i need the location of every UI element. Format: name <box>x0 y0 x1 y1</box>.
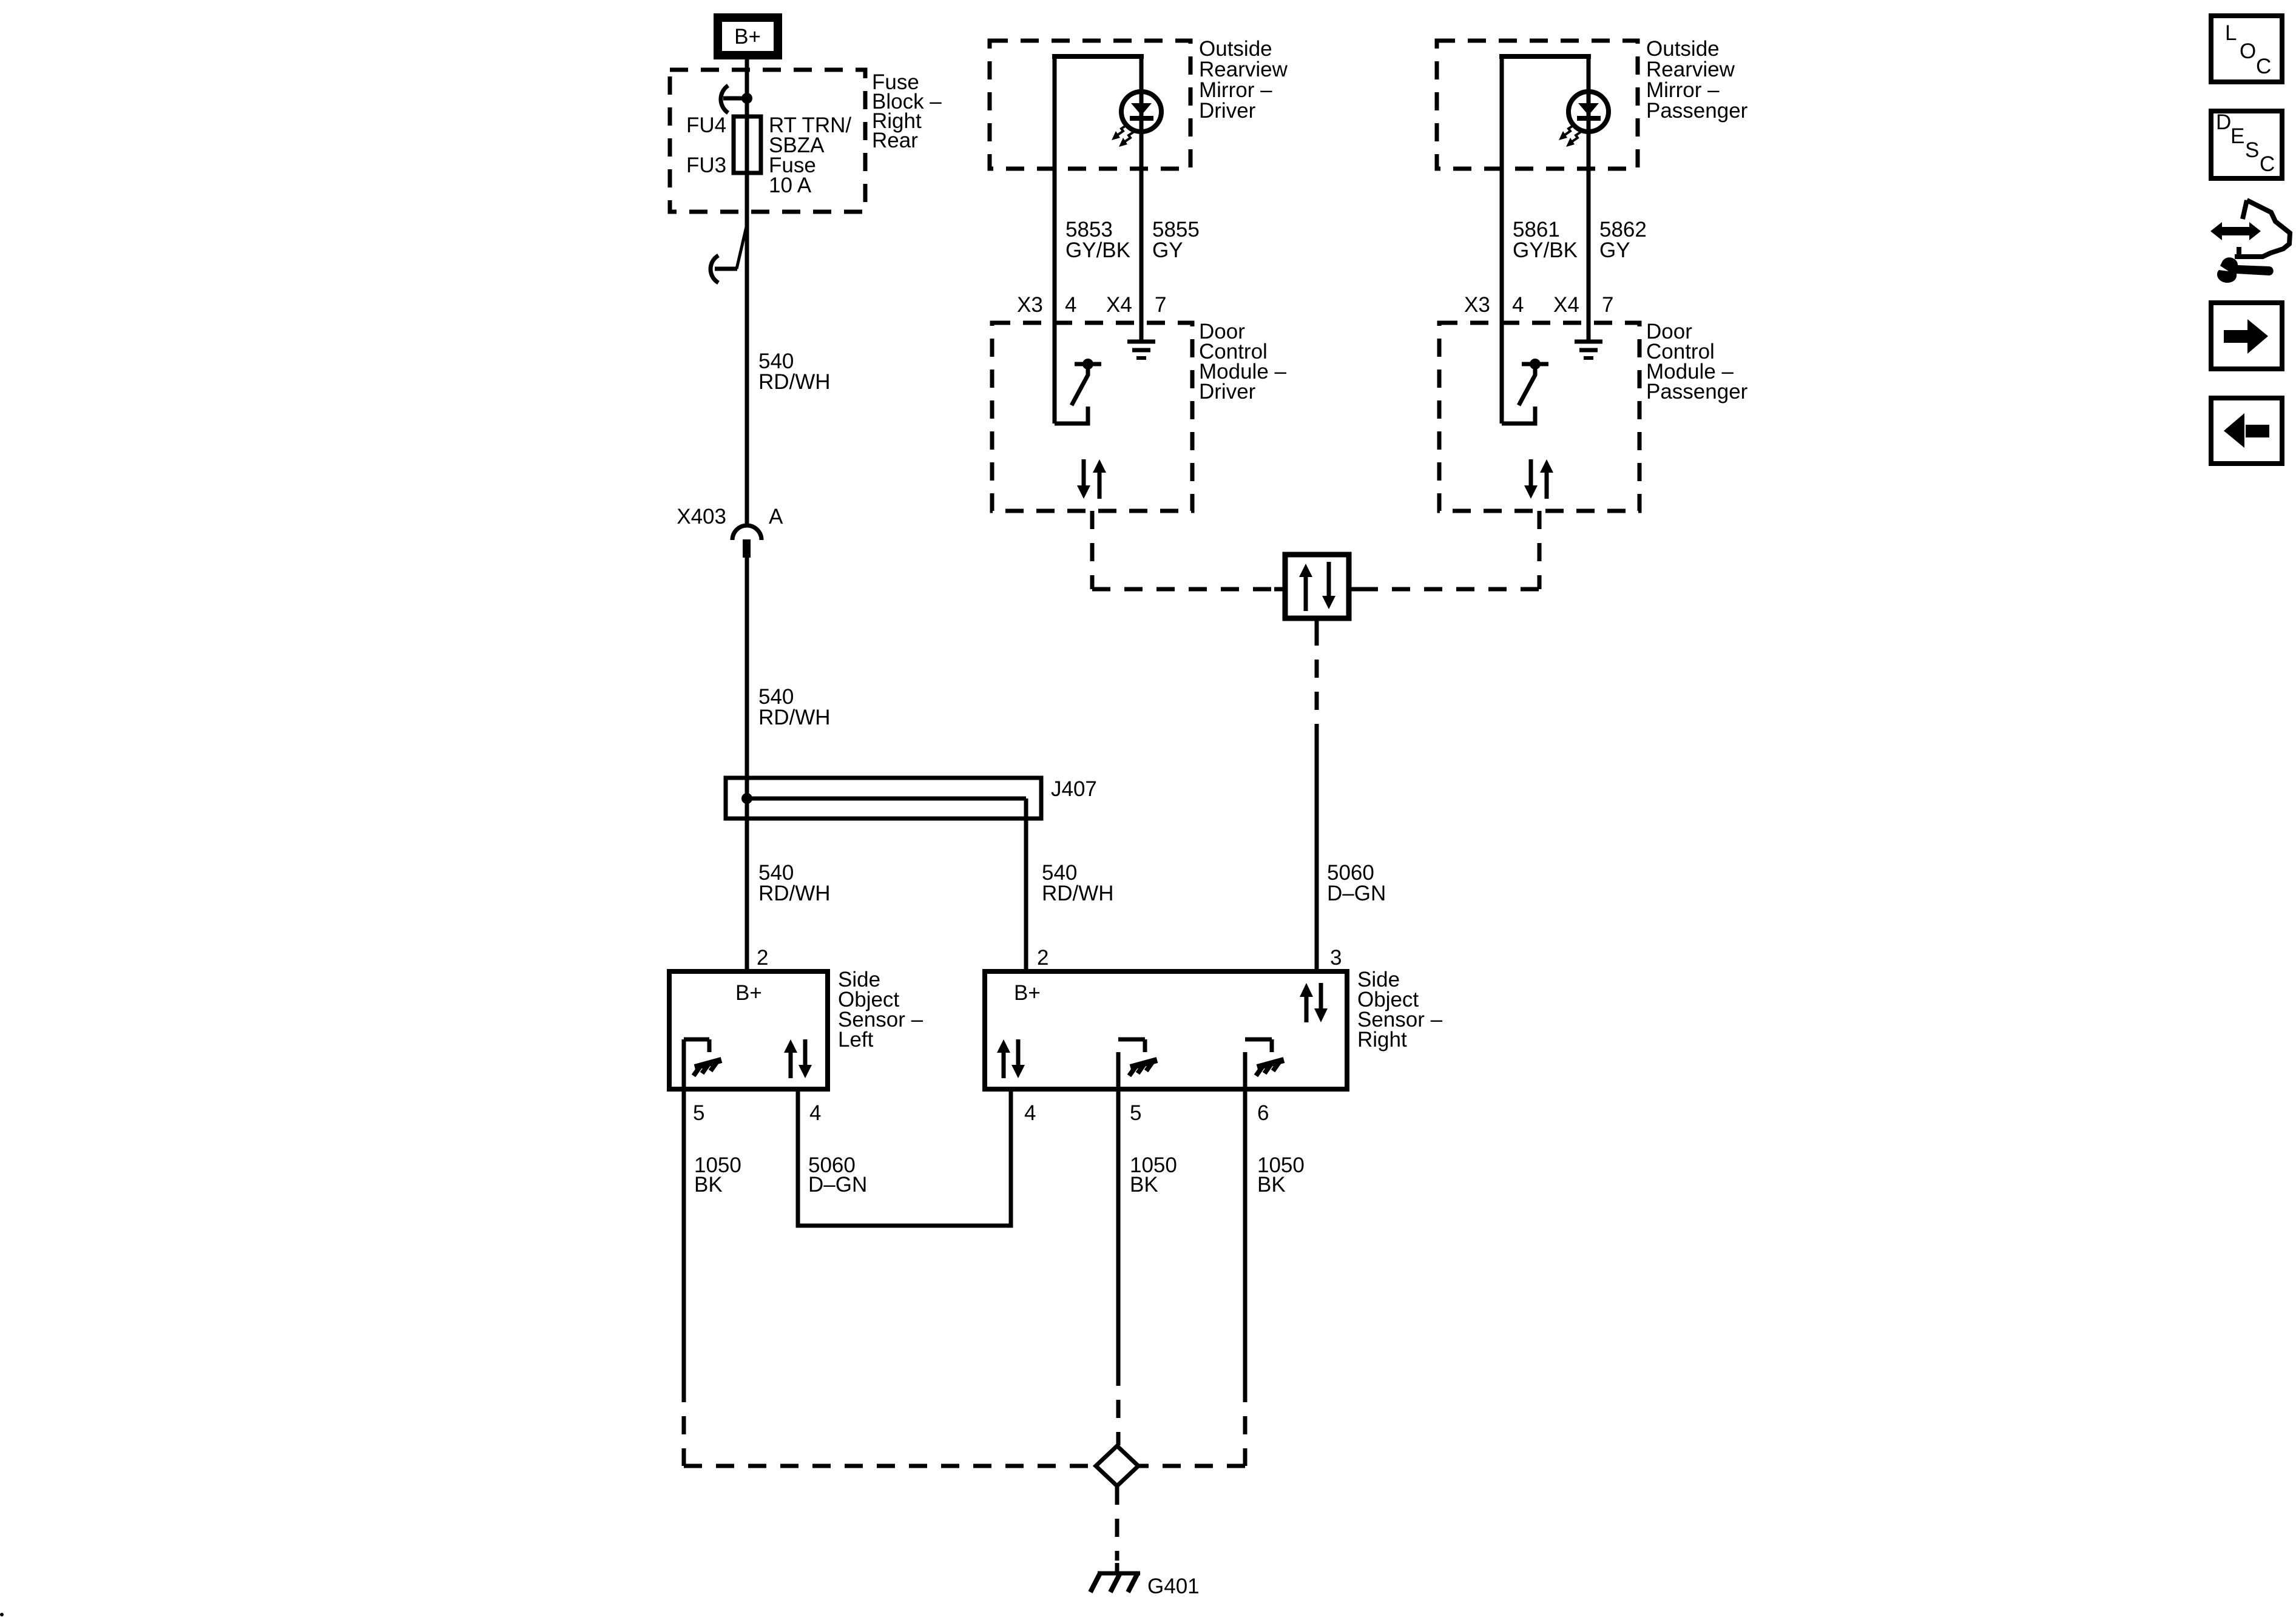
svg-text:BK: BK <box>694 1173 723 1197</box>
svg-text:X4: X4 <box>1106 293 1132 317</box>
svg-text:6: 6 <box>1257 1101 1269 1125</box>
svg-text:O: O <box>2240 39 2256 63</box>
svg-text:5: 5 <box>1130 1101 1141 1125</box>
svg-text:GY/BK: GY/BK <box>1513 238 1578 262</box>
svg-text:Passenger: Passenger <box>1646 99 1748 123</box>
svg-text:A: A <box>769 505 783 528</box>
svg-text:FU3: FU3 <box>686 154 726 177</box>
svg-text:BK: BK <box>1257 1173 1286 1197</box>
svg-text:5: 5 <box>693 1101 704 1125</box>
svg-text:C: C <box>2256 55 2271 78</box>
svg-text:Rear: Rear <box>872 129 918 152</box>
svg-text:Left: Left <box>838 1028 874 1052</box>
svg-text:BK: BK <box>1130 1173 1158 1197</box>
svg-text:10 A: 10 A <box>769 174 812 197</box>
svg-text:Right: Right <box>1357 1028 1407 1052</box>
svg-text:B+: B+ <box>1014 981 1041 1005</box>
svg-text:D: D <box>2216 110 2231 134</box>
svg-text:S: S <box>2245 138 2259 162</box>
svg-text:B+: B+ <box>734 25 761 49</box>
svg-text:Passenger: Passenger <box>1646 380 1748 403</box>
svg-text:B+: B+ <box>735 981 762 1005</box>
svg-text:GY/BK: GY/BK <box>1065 238 1130 262</box>
svg-text:7: 7 <box>1602 293 1613 317</box>
svg-text:E: E <box>2230 124 2244 148</box>
svg-text:RD/WH: RD/WH <box>1042 882 1114 905</box>
svg-text:4: 4 <box>1024 1101 1036 1125</box>
svg-text:G401: G401 <box>1147 1575 1200 1598</box>
svg-text:X3: X3 <box>1017 293 1043 317</box>
svg-text:4: 4 <box>809 1101 821 1125</box>
svg-text:GY: GY <box>1599 238 1630 262</box>
svg-text:2: 2 <box>757 946 768 970</box>
svg-text:FU4: FU4 <box>686 113 726 137</box>
svg-text:C: C <box>2260 152 2275 176</box>
svg-text:X403: X403 <box>677 505 726 528</box>
svg-text:4: 4 <box>1512 293 1524 317</box>
svg-text:2: 2 <box>1037 946 1048 970</box>
svg-text:D–GN: D–GN <box>808 1173 867 1197</box>
svg-text:Driver: Driver <box>1199 99 1256 123</box>
svg-text:7: 7 <box>1155 293 1166 317</box>
svg-text:RD/WH: RD/WH <box>758 370 831 394</box>
svg-text:3: 3 <box>1330 946 1342 970</box>
svg-text:Driver: Driver <box>1199 380 1256 403</box>
svg-text:RD/WH: RD/WH <box>758 706 831 729</box>
svg-text:RD/WH: RD/WH <box>758 882 831 905</box>
svg-text:D–GN: D–GN <box>1327 882 1386 905</box>
svg-text:X3: X3 <box>1464 293 1490 317</box>
svg-text:J407: J407 <box>1051 777 1097 801</box>
svg-text:L: L <box>2225 21 2237 45</box>
svg-text:4: 4 <box>1065 293 1076 317</box>
svg-text:GY: GY <box>1152 238 1183 262</box>
svg-text:X4: X4 <box>1553 293 1579 317</box>
